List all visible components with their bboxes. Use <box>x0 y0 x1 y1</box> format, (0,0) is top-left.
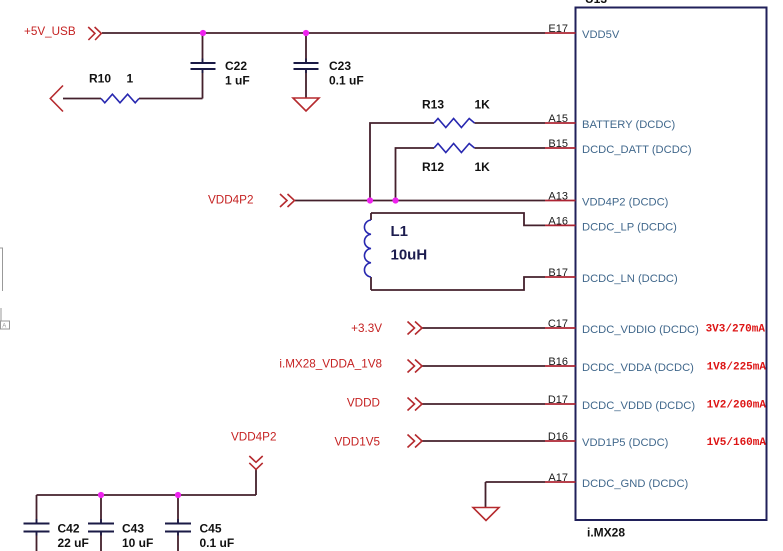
svg-text:D17: D17 <box>548 394 568 406</box>
svg-text:D16: D16 <box>548 431 568 443</box>
svg-text:B15: B15 <box>548 138 568 150</box>
svg-text:C43: C43 <box>122 522 144 536</box>
svg-text:DCDC_VDDD (DCDC): DCDC_VDDD (DCDC) <box>582 400 695 412</box>
svg-text:BATTERY (DCDC): BATTERY (DCDC) <box>582 119 676 131</box>
svg-text:E17: E17 <box>548 23 568 35</box>
svg-text:VDDD: VDDD <box>347 397 380 410</box>
svg-text:U13: U13 <box>585 0 607 6</box>
svg-text:L1: L1 <box>391 223 409 240</box>
svg-text:DCDC_VDDA (DCDC): DCDC_VDDA (DCDC) <box>582 362 694 374</box>
svg-text:VDD1P5 (DCDC): VDD1P5 (DCDC) <box>582 437 669 449</box>
svg-text:1V5/160mA: 1V5/160mA <box>707 437 767 449</box>
svg-text:A15: A15 <box>548 113 568 125</box>
svg-text:1: 1 <box>127 72 134 86</box>
svg-text:R10: R10 <box>89 72 111 86</box>
svg-text:1K: 1K <box>475 98 491 112</box>
svg-text:C45: C45 <box>200 522 222 536</box>
svg-text:R13: R13 <box>422 98 444 112</box>
svg-text:C23: C23 <box>329 59 351 73</box>
svg-text:i.MX28_VDDA_1V8: i.MX28_VDDA_1V8 <box>279 358 382 371</box>
svg-text:i.MX28: i.MX28 <box>587 526 625 540</box>
svg-text:A13: A13 <box>548 191 568 203</box>
svg-text:1V8/225mA: 1V8/225mA <box>707 362 767 374</box>
svg-text:A16: A16 <box>548 215 568 227</box>
svg-text:A: A <box>2 324 6 330</box>
svg-text:C42: C42 <box>58 522 80 536</box>
svg-text:10 uF: 10 uF <box>122 536 153 550</box>
svg-text:A17: A17 <box>548 472 568 484</box>
svg-text:22 uF: 22 uF <box>58 536 89 550</box>
svg-text:VDD4P2: VDD4P2 <box>208 194 253 207</box>
svg-text:R12: R12 <box>422 160 444 174</box>
svg-text:DCDC_VDDIO (DCDC): DCDC_VDDIO (DCDC) <box>582 324 699 336</box>
svg-text:VDD5V: VDD5V <box>582 29 620 41</box>
svg-text:10uH: 10uH <box>391 247 428 264</box>
svg-text:B16: B16 <box>548 356 568 368</box>
svg-text:1V2/200mA: 1V2/200mA <box>707 400 767 412</box>
svg-text:B17: B17 <box>548 267 568 279</box>
svg-text:0.1 uF: 0.1 uF <box>200 536 235 550</box>
svg-text:3V3/270mA: 3V3/270mA <box>706 324 766 336</box>
svg-text:DCDC_GND (DCDC): DCDC_GND (DCDC) <box>582 478 689 490</box>
svg-text:VDD4P2: VDD4P2 <box>231 431 276 444</box>
svg-text:+5V_USB: +5V_USB <box>24 25 76 38</box>
svg-text:VDD1V5: VDD1V5 <box>335 435 381 448</box>
svg-text:1K: 1K <box>475 160 491 174</box>
svg-text:C22: C22 <box>225 59 247 73</box>
svg-text:0.1 uF: 0.1 uF <box>329 74 364 88</box>
svg-text:DCDC_LP (DCDC): DCDC_LP (DCDC) <box>582 221 677 233</box>
svg-text:+3.3V: +3.3V <box>351 322 382 335</box>
svg-text:1 uF: 1 uF <box>225 74 250 88</box>
svg-text:C17: C17 <box>548 318 568 330</box>
svg-text:DCDC_DATT (DCDC): DCDC_DATT (DCDC) <box>582 144 692 156</box>
svg-text:VDD4P2 (DCDC): VDD4P2 (DCDC) <box>582 197 669 209</box>
svg-text:DCDC_LN (DCDC): DCDC_LN (DCDC) <box>582 273 678 285</box>
